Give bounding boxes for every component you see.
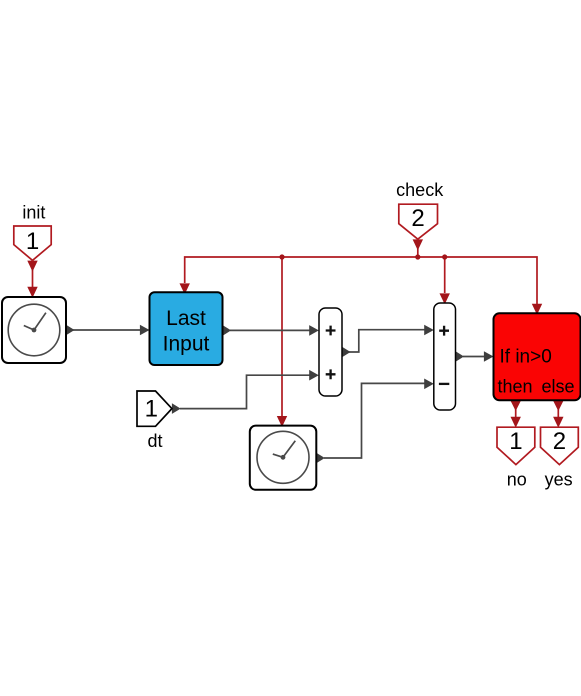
svg-text:2: 2	[411, 205, 424, 232]
svg-text:then: then	[498, 376, 533, 396]
svg-text:else: else	[542, 376, 575, 396]
svg-text:1: 1	[145, 396, 158, 423]
svg-text:dt: dt	[147, 431, 162, 451]
svg-text:check: check	[396, 180, 444, 200]
svg-text:init: init	[22, 203, 45, 223]
svg-text:Input: Input	[163, 333, 210, 356]
svg-text:Last: Last	[166, 307, 206, 330]
svg-text:2: 2	[553, 428, 566, 455]
svg-text:1: 1	[509, 428, 522, 455]
svg-text:1: 1	[26, 228, 39, 255]
svg-text:yes: yes	[545, 470, 573, 490]
svg-text:no: no	[507, 470, 527, 490]
svg-text:If in>0: If in>0	[500, 347, 552, 368]
